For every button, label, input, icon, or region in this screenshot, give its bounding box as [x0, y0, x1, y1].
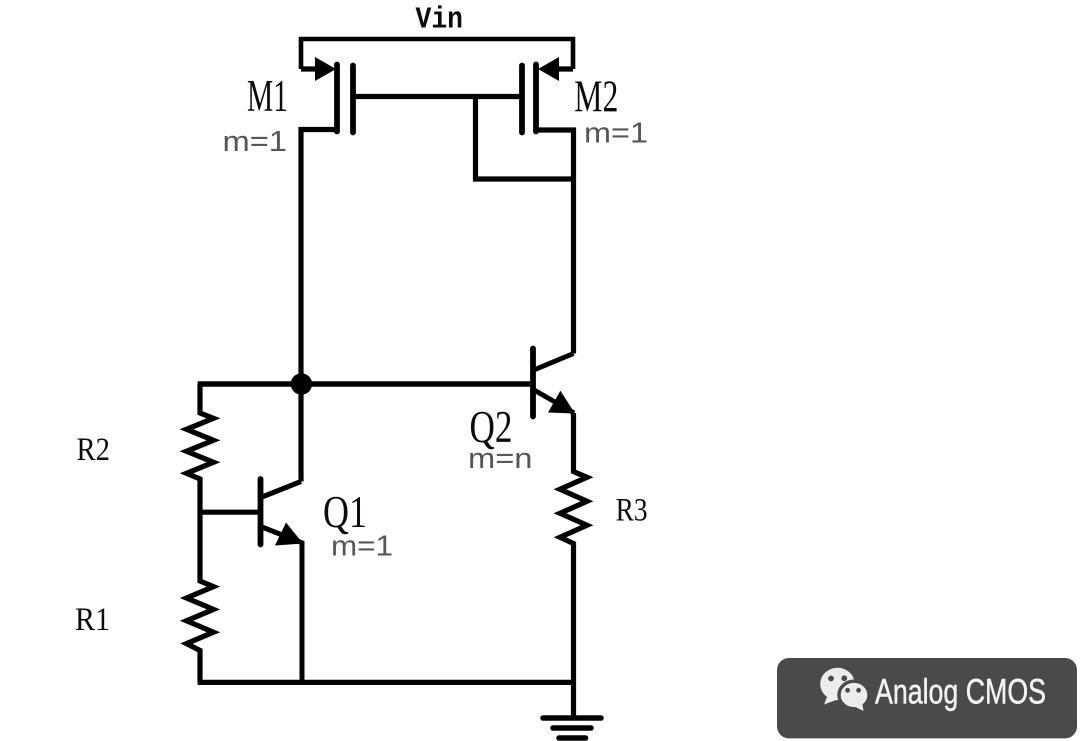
- svg-text:R3: R3: [616, 492, 648, 528]
- svg-text:R2: R2: [77, 432, 111, 468]
- svg-text:R1: R1: [75, 602, 110, 638]
- svg-text:Vin: Vin: [416, 3, 464, 38]
- svg-text:m=1: m=1: [223, 126, 288, 158]
- svg-text:M2: M2: [574, 72, 618, 122]
- svg-text:Q1: Q1: [323, 487, 367, 537]
- svg-text:Analog CMOS: Analog CMOS: [875, 673, 1046, 712]
- svg-text:m=1: m=1: [584, 118, 648, 150]
- svg-text:m=n: m=n: [468, 443, 533, 475]
- svg-text:m=1: m=1: [331, 531, 393, 563]
- svg-text:M1: M1: [247, 71, 288, 121]
